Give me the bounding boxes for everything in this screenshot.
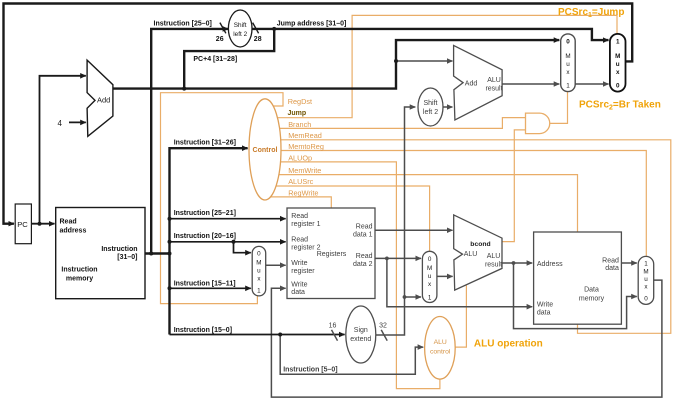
svg-text:u: u [616,61,620,68]
svg-text:Read: Read [356,224,373,231]
svg-text:ALU: ALU [464,251,478,258]
svg-text:memory: memory [66,275,93,282]
svg-text:32: 32 [379,323,387,330]
svg-text:ALUSrc: ALUSrc [288,177,313,186]
svg-text:PCSrc2=Br Taken: PCSrc2=Br Taken [579,100,661,112]
svg-text:PC: PC [17,220,28,229]
svg-text:bcond: bcond [470,241,490,248]
svg-text:1: 1 [644,261,648,268]
svg-text:Instruction: Instruction [61,266,97,273]
svg-text:0: 0 [257,251,261,258]
svg-text:4: 4 [58,119,63,128]
svg-text:M: M [643,269,648,276]
svg-text:left 2: left 2 [233,31,247,38]
svg-text:Jump: Jump [288,110,307,117]
svg-text:extend: extend [350,336,371,343]
svg-text:M: M [256,260,261,267]
svg-text:16: 16 [329,323,337,330]
svg-text:u: u [257,268,261,275]
svg-text:0: 0 [428,256,432,263]
svg-text:result: result [485,262,502,269]
svg-text:MemWrite: MemWrite [288,166,321,175]
svg-text:ALU: ALU [434,339,447,346]
svg-text:data 1: data 1 [353,232,373,239]
svg-text:28: 28 [254,36,262,43]
svg-text:data: data [537,309,551,316]
svg-text:M: M [615,53,620,60]
svg-text:0: 0 [566,39,570,46]
svg-text:Read: Read [291,213,308,220]
svg-text:1: 1 [257,288,261,295]
svg-text:Instruction [15–0]: Instruction [15–0] [174,327,232,334]
svg-text:PCSrc1=Jump: PCSrc1=Jump [558,7,624,19]
svg-text:data: data [605,265,619,272]
svg-text:Add: Add [465,81,478,88]
svg-text:Instruction [31–26]: Instruction [31–26] [174,139,236,146]
svg-text:ALU operation: ALU operation [474,338,543,349]
svg-text:ALU: ALU [487,77,501,84]
svg-text:Sign: Sign [354,327,368,334]
svg-text:Read: Read [602,257,619,264]
svg-text:ALUOp: ALUOp [288,153,312,162]
svg-text:Control: Control [253,147,278,154]
svg-text:Instruction: Instruction [101,246,137,253]
svg-text:address: address [60,227,87,234]
svg-text:register 1: register 1 [291,221,320,228]
svg-text:Instruction [5–0]: Instruction [5–0] [283,366,337,373]
svg-text:MemtoReg: MemtoReg [288,142,324,151]
svg-text:u: u [428,273,432,280]
svg-text:Shift: Shift [423,100,437,107]
svg-text:u: u [566,61,570,68]
svg-text:Add: Add [97,95,110,104]
svg-text:Jump address [31–0]: Jump address [31–0] [277,20,347,27]
svg-text:RegWrite: RegWrite [288,188,318,197]
svg-text:Registers: Registers [317,251,347,258]
svg-text:0: 0 [644,296,648,303]
svg-text:Read: Read [356,253,373,260]
svg-text:Instruction [25–0]: Instruction [25–0] [154,20,212,27]
svg-text:data: data [291,289,305,296]
svg-text:Instruction [20–16]: Instruction [20–16] [174,233,236,240]
svg-text:u: u [644,276,648,283]
svg-text:data 2: data 2 [353,261,373,268]
svg-text:RegDst: RegDst [288,97,312,106]
svg-text:ALU: ALU [487,253,501,260]
svg-text:Branch: Branch [288,120,311,129]
svg-text:PC+4 [31–28]: PC+4 [31–28] [193,56,237,63]
svg-text:1: 1 [616,39,620,46]
svg-text:1: 1 [428,295,432,302]
svg-text:0: 0 [616,83,620,90]
svg-text:control: control [430,349,451,356]
svg-text:1: 1 [566,83,570,90]
svg-text:Write: Write [291,260,307,267]
svg-text:Instruction [15–11]: Instruction [15–11] [174,280,236,287]
svg-text:result: result [485,86,502,93]
svg-text:MemRead: MemRead [288,131,322,140]
svg-text:Data: Data [584,286,599,293]
svg-text:memory: memory [579,295,605,302]
svg-text:Read: Read [60,218,77,225]
svg-text:register: register [291,268,315,275]
svg-text:Read: Read [291,237,308,244]
svg-text:M: M [565,53,570,60]
svg-text:Shift: Shift [234,22,247,29]
svg-text:Instruction [25–21]: Instruction [25–21] [174,210,236,217]
svg-text:Address: Address [537,261,563,268]
svg-text:Write: Write [537,302,553,309]
svg-text:left 2: left 2 [423,109,438,116]
svg-text:x: x [616,69,620,76]
svg-text:Write: Write [291,281,307,288]
svg-text:[31–0]: [31–0] [117,254,137,261]
svg-text:M: M [427,265,432,272]
svg-text:26: 26 [216,36,224,43]
